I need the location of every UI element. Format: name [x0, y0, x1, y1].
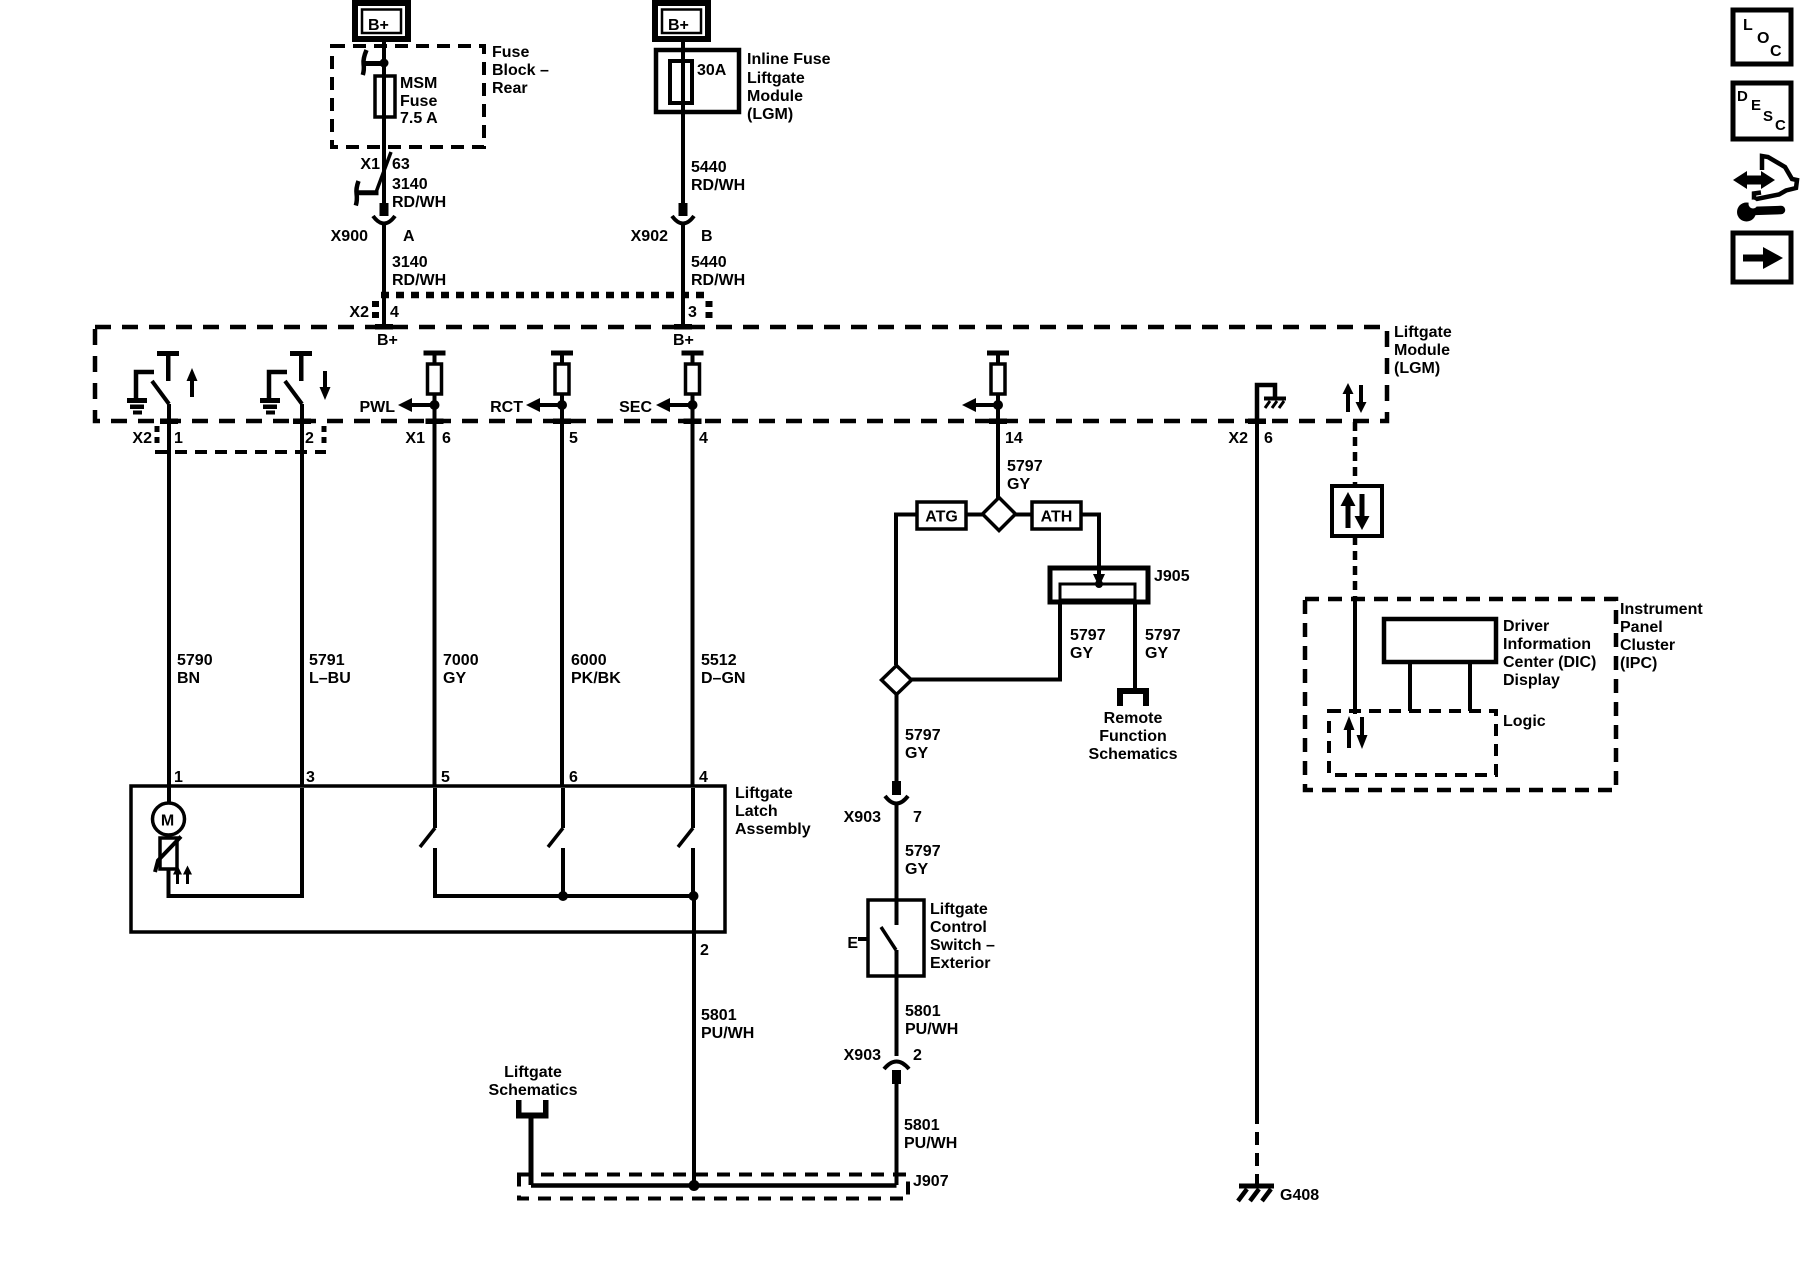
svg-text:3: 3 [688, 304, 697, 321]
svg-text:BN: BN [177, 670, 200, 687]
svg-text:63: 63 [392, 156, 410, 173]
svg-text:3140: 3140 [392, 176, 428, 193]
svg-text:B+: B+ [668, 17, 689, 34]
svg-text:D–GN: D–GN [701, 670, 745, 687]
svg-text:4: 4 [390, 304, 399, 321]
svg-text:RD/WH: RD/WH [691, 177, 745, 194]
svg-text:G408: G408 [1280, 1187, 1319, 1204]
svg-text:6: 6 [569, 769, 578, 786]
svg-text:E: E [1751, 97, 1761, 114]
svg-text:Liftgate: Liftgate [930, 901, 988, 918]
svg-text:PK/BK: PK/BK [571, 670, 621, 687]
svg-text:B: B [701, 228, 713, 245]
svg-text:X903: X903 [844, 1047, 881, 1064]
svg-text:J905: J905 [1154, 568, 1190, 585]
svg-text:Display: Display [1503, 672, 1560, 689]
svg-text:5801: 5801 [905, 1003, 941, 1020]
svg-text:3: 3 [306, 769, 315, 786]
svg-text:Liftgate: Liftgate [1394, 324, 1452, 341]
svg-text:1: 1 [174, 430, 183, 447]
svg-text:O: O [1757, 30, 1769, 47]
svg-text:2: 2 [305, 430, 314, 447]
svg-text:5512: 5512 [701, 652, 737, 669]
svg-text:Liftgate: Liftgate [747, 70, 805, 87]
svg-text:PWL: PWL [359, 399, 395, 416]
svg-text:Latch: Latch [735, 803, 778, 820]
svg-text:Block –: Block – [492, 62, 549, 79]
svg-text:X903: X903 [844, 809, 881, 826]
svg-text:5440: 5440 [691, 254, 727, 271]
svg-text:MSM: MSM [400, 75, 437, 92]
svg-text:Liftgate: Liftgate [735, 785, 793, 802]
svg-text:Logic: Logic [1503, 713, 1546, 730]
svg-text:5797: 5797 [1007, 458, 1043, 475]
svg-text:X1: X1 [405, 430, 425, 447]
svg-text:Center (DIC): Center (DIC) [1503, 654, 1596, 671]
svg-text:GY: GY [443, 670, 466, 687]
svg-text:Fuse: Fuse [492, 44, 529, 61]
svg-text:Schematics: Schematics [489, 1082, 578, 1099]
svg-text:ATG: ATG [925, 509, 958, 526]
svg-text:Module: Module [1394, 342, 1450, 359]
svg-text:B+: B+ [368, 17, 389, 34]
svg-text:Assembly: Assembly [735, 821, 811, 838]
svg-text:2: 2 [700, 942, 709, 959]
svg-text:5440: 5440 [691, 159, 727, 176]
svg-text:D: D [1737, 88, 1748, 105]
svg-text:L–BU: L–BU [309, 670, 351, 687]
svg-text:5: 5 [569, 430, 578, 447]
svg-text:Fuse: Fuse [400, 93, 437, 110]
svg-text:Driver: Driver [1503, 618, 1549, 635]
svg-text:X2: X2 [1228, 430, 1248, 447]
svg-text:A: A [403, 228, 415, 245]
svg-text:Module: Module [747, 88, 803, 105]
svg-text:4: 4 [699, 430, 708, 447]
svg-text:6000: 6000 [571, 652, 607, 669]
svg-text:X2: X2 [349, 304, 369, 321]
svg-text:7.5 A: 7.5 A [400, 110, 438, 127]
svg-text:Inline Fuse: Inline Fuse [747, 51, 831, 68]
svg-text:Panel: Panel [1620, 619, 1663, 636]
svg-text:(IPC): (IPC) [1620, 655, 1657, 672]
svg-text:C: C [1770, 43, 1782, 60]
svg-text:Cluster: Cluster [1620, 637, 1675, 654]
svg-text:5790: 5790 [177, 652, 213, 669]
svg-text:Exterior: Exterior [930, 955, 990, 972]
svg-text:(LGM): (LGM) [747, 106, 793, 123]
svg-text:6: 6 [1264, 430, 1273, 447]
svg-text:C: C [1775, 117, 1786, 134]
svg-text:Schematics: Schematics [1089, 746, 1178, 763]
svg-text:X900: X900 [331, 228, 368, 245]
svg-text:B+: B+ [673, 332, 694, 349]
svg-text:M: M [161, 813, 174, 830]
svg-text:J907: J907 [913, 1173, 949, 1190]
svg-text:30A: 30A [697, 62, 727, 79]
svg-text:Information: Information [1503, 636, 1591, 653]
svg-text:5801: 5801 [701, 1007, 737, 1024]
svg-text:GY: GY [1145, 645, 1168, 662]
svg-text:GY: GY [905, 745, 928, 762]
svg-text:6: 6 [442, 430, 451, 447]
svg-text:Rear: Rear [492, 80, 528, 97]
svg-text:5801: 5801 [904, 1117, 940, 1134]
svg-text:PU/WH: PU/WH [904, 1135, 957, 1152]
svg-text:Instrument: Instrument [1620, 601, 1703, 618]
svg-text:RD/WH: RD/WH [392, 194, 446, 211]
svg-text:5797: 5797 [905, 843, 941, 860]
svg-text:GY: GY [1007, 476, 1030, 493]
svg-text:Control: Control [930, 919, 987, 936]
svg-text:PU/WH: PU/WH [905, 1021, 958, 1038]
svg-text:GY: GY [905, 861, 928, 878]
svg-text:2: 2 [913, 1047, 922, 1064]
svg-text:3140: 3140 [392, 254, 428, 271]
svg-text:(LGM): (LGM) [1394, 360, 1440, 377]
svg-text:RCT: RCT [490, 399, 523, 416]
svg-text:5797: 5797 [1145, 627, 1181, 644]
svg-text:X2: X2 [132, 430, 152, 447]
svg-text:5797: 5797 [1070, 627, 1106, 644]
svg-text:S: S [1763, 108, 1773, 125]
svg-text:7: 7 [913, 809, 922, 826]
svg-text:E: E [847, 935, 858, 952]
svg-text:RD/WH: RD/WH [691, 272, 745, 289]
svg-text:1: 1 [174, 769, 183, 786]
svg-text:Switch –: Switch – [930, 937, 995, 954]
svg-text:X1: X1 [360, 156, 380, 173]
svg-text:Remote: Remote [1104, 710, 1163, 727]
svg-text:L: L [1743, 17, 1753, 34]
svg-text:5: 5 [441, 769, 450, 786]
svg-text:5791: 5791 [309, 652, 345, 669]
svg-text:7000: 7000 [443, 652, 479, 669]
svg-text:PU/WH: PU/WH [701, 1025, 754, 1042]
svg-text:ATH: ATH [1041, 509, 1073, 526]
svg-text:14: 14 [1005, 430, 1023, 447]
svg-text:GY: GY [1070, 645, 1093, 662]
svg-text:Liftgate: Liftgate [504, 1064, 562, 1081]
svg-text:4: 4 [699, 769, 708, 786]
svg-text:5797: 5797 [905, 727, 941, 744]
svg-text:RD/WH: RD/WH [392, 272, 446, 289]
svg-text:Function: Function [1099, 728, 1167, 745]
svg-text:X902: X902 [631, 228, 668, 245]
svg-text:SEC: SEC [619, 399, 652, 416]
svg-text:B+: B+ [377, 332, 398, 349]
